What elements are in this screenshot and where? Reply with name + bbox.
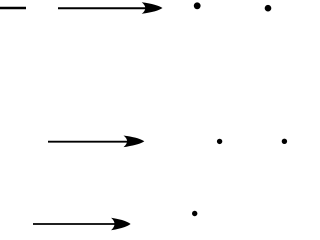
dash segment top-left xyxy=(0,7,26,9)
arrow 1 head xyxy=(142,2,163,14)
arrow 1 shaft xyxy=(58,7,152,9)
arrow 3 head xyxy=(111,218,131,230)
dot A2 xyxy=(265,5,272,12)
arrow 2 head xyxy=(124,136,145,148)
dot A1 xyxy=(194,2,201,9)
dot B2 xyxy=(282,139,287,144)
dot B1 xyxy=(217,139,222,144)
arrow 3 shaft xyxy=(33,223,120,225)
dot C1 xyxy=(192,211,197,216)
arrow 2 shaft xyxy=(48,141,134,143)
